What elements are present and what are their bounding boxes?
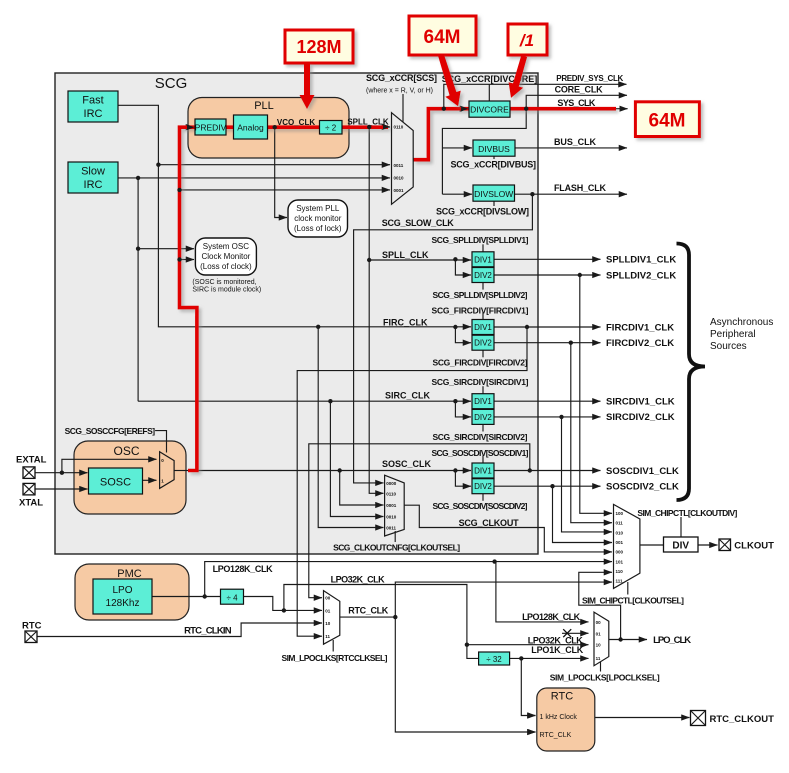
svg-text:0010: 0010 — [394, 175, 405, 180]
svg-text:DIVCORE: DIVCORE — [470, 105, 509, 115]
wire SIRCDIV1_CLK out — [494, 400, 601, 402]
junction FIRC div2 branch — [453, 325, 457, 329]
pad EXTAL — [16, 455, 47, 479]
wire SOSCDIV1 rail to RTC mux 00 — [309, 444, 530, 598]
svg-text:PMC: PMC — [117, 568, 142, 580]
wire Analog to div2 (VCO_CLK) — [268, 126, 319, 128]
svg-text:11: 11 — [325, 634, 330, 639]
svg-text:/1: /1 — [519, 31, 534, 50]
block SOSC DIV1 — [472, 463, 494, 478]
wire BUS_CLK — [515, 147, 627, 149]
svg-text:0001: 0001 — [394, 188, 405, 193]
wire EXTAL to SOSC — [35, 472, 88, 474]
svg-text:SCG_CLKOUTCNFG[CLKOUTSEL]: SCG_CLKOUTCNFG[CLKOUTSEL] — [333, 543, 460, 553]
block PLL (container) — [188, 98, 349, 159]
wire FIRCDIV2_CLK out — [494, 342, 601, 344]
junction SOSC monitor — [177, 257, 181, 261]
pad RTC — [22, 621, 42, 643]
mux SCS (system clock select) — [392, 113, 414, 205]
svg-text:(where x = R, V, or H): (where x = R, V, or H) — [366, 88, 433, 95]
wire LPO128K_CLK to CLKOUTSEL 101 — [205, 562, 612, 597]
svg-text:SCG_CLKOUT: SCG_CLKOUT — [459, 518, 519, 528]
block DIVBUS — [473, 140, 515, 156]
svg-text:IRC: IRC — [84, 108, 103, 120]
svg-text:÷ 2: ÷ 2 — [325, 124, 337, 133]
block div4 — [221, 589, 244, 604]
svg-text:DIV1: DIV1 — [474, 255, 492, 264]
wire SIRCDIV2 select stub — [482, 425, 484, 432]
wire SOSCDIV2 select stub — [482, 494, 484, 501]
mux SIM_CHIPCTL[CLKOUTSEL] — [614, 504, 640, 588]
wire EREFS select — [155, 431, 166, 453]
svg-text:DIV2: DIV2 — [474, 482, 492, 491]
wire SPLLDIV1 select stub — [482, 244, 484, 252]
svg-text:Peripheral: Peripheral — [710, 329, 756, 340]
svg-text:11: 11 — [596, 656, 601, 661]
junction DIVCORE output — [524, 107, 528, 111]
wire SCG_SLOW_CLK to SCG_CLKOUT mux 0000 — [354, 194, 533, 483]
svg-text:RTC_CLKIN: RTC_CLKIN — [184, 626, 232, 637]
wire RTC_CLKIN to RTC mux 10 — [37, 623, 322, 637]
svg-text:SCG_SOSCDIV[SOSCDIV2]: SCG_SOSCDIV[SOSCDIV2] — [433, 501, 528, 511]
wire SIRC to OSC clock monitor — [138, 248, 194, 250]
wire CORE_CLK — [526, 95, 627, 108]
junction SIRC rail — [136, 176, 140, 180]
block SOSC DIV2 — [472, 479, 494, 494]
wire Fast IRC to FIRC rail — [118, 105, 158, 164]
wire SIRC_CLK to SIRCDIV group — [138, 400, 471, 402]
block DIVCORE — [469, 101, 510, 117]
wire LPO32K_CLK to LPO mux 10 — [284, 585, 589, 645]
svg-text:DIV: DIV — [672, 541, 689, 552]
monitor System OSC Clock Monitor — [195, 238, 256, 275]
wire LPO1K to RTC 1kHz input — [521, 658, 535, 715]
wire EXTAL bypass to OSC mux 0 — [62, 459, 157, 472]
svg-text:OSC: OSC — [113, 444, 139, 458]
svg-text:FIRCDIV1_CLK: FIRCDIV1_CLK — [606, 322, 674, 333]
block DIVSLOW — [473, 185, 515, 201]
wire SOSC to DIV2 — [455, 471, 471, 487]
wire RTC block to RTC_CLKOUT pad — [595, 717, 690, 719]
mux SCG_CLKOUT (CLKOUTCNFG) — [385, 475, 405, 536]
svg-text:XTAL: XTAL — [19, 498, 43, 509]
svg-text:128M: 128M — [296, 37, 341, 57]
annotation arrow 128M — [300, 63, 315, 109]
block PREDIV — [195, 119, 227, 135]
svg-text:10: 10 — [596, 643, 602, 648]
wire RTC mux select stub — [332, 640, 334, 652]
wire LPO128K to LPO mux 00 — [496, 562, 589, 622]
wire LPO_CLK to CLKOUTSEL 110 — [579, 572, 621, 639]
svg-text:(Loss of lock): (Loss of lock) — [294, 224, 342, 233]
wire SPLL rail to SCG_CLKOUT mux 0110 — [369, 127, 383, 493]
wire VCO to System PLL clock monitor — [275, 127, 287, 217]
block FIRC DIV1 — [472, 320, 494, 335]
svg-text:CLKOUT: CLKOUT — [734, 541, 774, 552]
block DIV — [664, 537, 699, 552]
svg-text:SIRCDIV2_CLK: SIRCDIV2_CLK — [606, 412, 675, 423]
svg-text:SOSCDIV1_CLK: SOSCDIV1_CLK — [606, 466, 679, 477]
wire FIRCDIV2 rail to CLKOUTSEL 011 — [571, 343, 612, 523]
svg-text:0011: 0011 — [394, 163, 404, 168]
block RTC — [537, 688, 595, 751]
svg-text:SYS_CLK: SYS_CLK — [557, 98, 596, 108]
block SIRC DIV1 — [472, 394, 494, 409]
svg-text:PREDIV: PREDIV — [195, 123, 227, 133]
svg-text:SIM_CHIPCTL[CLKOUTDIV]: SIM_CHIPCTL[CLKOUTDIV] — [637, 508, 737, 518]
wire FIRCDIV2 select stub — [482, 350, 484, 357]
svg-text:VCO_CLK: VCO_CLK — [277, 118, 315, 127]
wire SOSCDIV1_CLK out — [494, 470, 601, 472]
svg-text:DIV1: DIV1 — [474, 323, 492, 332]
svg-text:SCG_SOSCDIV[SOSCDIV1]: SCG_SOSCDIV[SOSCDIV1] — [432, 448, 529, 458]
wire PREDIV_SYS_CLK — [444, 84, 627, 108]
junction SOSCDIV1 out — [528, 468, 532, 472]
wire FIRCDIV1 rail to RTC mux 11 — [297, 327, 527, 636]
junction FIRC to mux — [156, 163, 160, 167]
svg-text:101: 101 — [616, 559, 624, 564]
svg-text:÷ 32: ÷ 32 — [486, 655, 502, 664]
svg-text:IRC: IRC — [84, 179, 103, 191]
svg-text:128Khz: 128Khz — [106, 598, 140, 609]
junction FIRC clkout branch — [316, 325, 320, 329]
svg-text:PLL: PLL — [254, 100, 274, 112]
svg-text:SIM_LPOCLKS[RTCCLKSEL]: SIM_LPOCLKS[RTCCLKSEL] — [282, 653, 388, 663]
wire SOSCDIV2 rail to CLKOUTSEL 001 — [553, 486, 613, 542]
svg-text:RTC_CLK: RTC_CLK — [348, 606, 389, 616]
wire DIVSLOW select stub — [493, 201, 495, 206]
svg-text:0000: 0000 — [386, 481, 397, 486]
junction EXTAL — [60, 471, 64, 475]
svg-text:BUS_CLK: BUS_CLK — [554, 137, 597, 147]
wire SIRCDIV2 rail to CLKOUTSEL 010 — [562, 417, 613, 532]
wire SIM_CHIPCTL[CLKOUTDIV] select — [680, 517, 682, 537]
svg-text:110: 110 — [616, 569, 624, 574]
svg-text:Fast: Fast — [82, 95, 103, 107]
block PMC (container) — [75, 564, 189, 620]
SCG container box — [55, 73, 538, 554]
junction SOSCDIV2 out — [550, 484, 554, 488]
svg-text:SPLLDIV1_CLK: SPLLDIV1_CLK — [606, 255, 676, 266]
wire X stub to LPO mux 01 — [562, 632, 589, 634]
annotation arrow 64M — [438, 54, 461, 106]
svg-text:00: 00 — [325, 596, 331, 601]
wire SPLL to DIV2 — [455, 259, 471, 275]
svg-text:FIRCDIV2_CLK: FIRCDIV2_CLK — [606, 338, 674, 349]
svg-text:DIV1: DIV1 — [474, 467, 492, 476]
svg-text:LPO128K_CLK: LPO128K_CLK — [213, 564, 274, 574]
svg-text:01: 01 — [596, 631, 602, 636]
svg-text:SCG_xCCR[DIVSLOW]: SCG_xCCR[DIVSLOW] — [436, 207, 529, 217]
wire SOSC to PLL PREDIV (under red) — [180, 127, 197, 470]
svg-text:(Loss of clock): (Loss of clock) — [200, 262, 252, 271]
wire SOSCDIV1 select stub — [482, 456, 484, 464]
svg-text:SCG_xCCR[SCS]: SCG_xCCR[SCS] — [366, 73, 437, 83]
junction SPLL div2 branch — [453, 257, 457, 261]
wire SIRC to SCG_CLKOUT mux 0010 — [330, 401, 383, 516]
monitor System PLL clock monitor — [288, 200, 348, 237]
junction SIRC clkout branch — [328, 399, 332, 403]
wire FIRC to SCG_CLKOUT mux 0011 — [318, 327, 383, 528]
wire DIVCORE out (under red) — [510, 108, 616, 110]
wire SPLLDIV2 rail to CLKOUTSEL 100 — [580, 275, 612, 513]
block div2 — [320, 121, 343, 135]
brace asynchronous peripheral sources — [677, 244, 706, 501]
wire SIRCDIV2_CLK out — [494, 416, 601, 418]
svg-text:0110: 0110 — [394, 124, 404, 129]
svg-text:SPLLDIV2_CLK: SPLLDIV2_CLK — [606, 270, 676, 281]
wire SIRC to DIV2 — [455, 401, 471, 417]
wire DIV to CLKOUT pad — [698, 544, 718, 546]
svg-text:SIRC_CLK: SIRC_CLK — [385, 391, 431, 401]
wire XTAL to SOSC — [35, 488, 88, 490]
block SOSC — [89, 468, 143, 494]
wire SPLL_CLK to SPLLDIV group — [369, 259, 471, 261]
svg-text:DIV2: DIV2 — [474, 271, 492, 280]
wire SOSC to OSC clock monitor — [180, 259, 195, 261]
svg-text:64M: 64M — [649, 111, 686, 132]
junction SOSC to mux — [177, 188, 181, 192]
svg-text:SCG: SCG — [155, 75, 188, 92]
wire CLKOUTSEL mux select stub — [627, 582, 629, 595]
wire RTC_CLK out — [340, 616, 395, 618]
svg-text:clock monitor: clock monitor — [294, 214, 341, 223]
annotation /1 — [508, 24, 547, 55]
wire LPO32K to div32 — [467, 645, 478, 659]
svg-text:64M: 64M — [424, 27, 461, 48]
wire FIRC to SCS mux 0011 — [158, 164, 390, 166]
junction SIRCDIV2 out — [559, 415, 563, 419]
svg-text:SPLL_CLK: SPLL_CLK — [382, 250, 429, 260]
junction SIRC monitor — [136, 247, 140, 251]
svg-text:FIRC_CLK: FIRC_CLK — [383, 318, 428, 328]
svg-text:111: 111 — [616, 579, 624, 584]
junction SPLL div group — [367, 258, 371, 262]
junction SPLL rail top — [367, 125, 371, 129]
pad CLKOUT — [719, 539, 774, 552]
svg-text:001: 001 — [616, 540, 624, 545]
block SPLL DIV1 — [472, 252, 494, 267]
svg-text:SPLL_CLK: SPLL_CLK — [347, 118, 389, 127]
junction LPO out — [203, 594, 207, 598]
junction DIVCORE input — [442, 107, 446, 111]
arrows into RTC block — [531, 715, 536, 717]
svg-text:Sources: Sources — [710, 341, 747, 352]
wire FIRCDIV1 select stub — [482, 312, 484, 320]
wire FLASH_CLK — [515, 193, 627, 195]
junction FIRCDIV2 out — [569, 341, 573, 345]
wire SPLLDIV2_CLK out — [494, 274, 601, 276]
wire FIRC to DIV2 — [455, 327, 471, 343]
mux SIM_LPOCLKS[RTCCLKSEL] — [324, 591, 340, 645]
svg-text:FLASH_CLK: FLASH_CLK — [554, 183, 607, 193]
wire SIRCDIV1 select stub — [482, 386, 484, 394]
svg-text:SIRCDIV1_CLK: SIRCDIV1_CLK — [606, 397, 675, 408]
svg-text:0011: 0011 — [386, 526, 396, 531]
wire SYS_CLK arrow — [616, 108, 628, 110]
svg-text:SCG_SIRCDIV[SIRCDIV2]: SCG_SIRCDIV[SIRCDIV2] — [433, 432, 528, 442]
svg-text:SOSC_CLK: SOSC_CLK — [382, 459, 432, 469]
X mark on reserved LPO mux input — [563, 629, 571, 637]
svg-text:SIM_CHIPCTL[CLKOUTSEL]: SIM_CHIPCTL[CLKOUTSEL] — [582, 596, 684, 606]
svg-text:Clock Monitor: Clock Monitor — [201, 252, 250, 261]
wire LPO1K_CLK to LPO mux 11 — [509, 657, 588, 659]
wire SIRC rail down — [137, 178, 139, 401]
wire SCG_CLKOUT mux select stub — [394, 531, 396, 542]
junction RTC_CLK — [393, 615, 397, 619]
svg-text:SOSC: SOSC — [100, 477, 131, 489]
svg-text:0110: 0110 — [386, 491, 396, 496]
annotation 64M (right) — [635, 102, 699, 137]
svg-text:RTC: RTC — [551, 691, 573, 703]
junction SOSC clkout branch — [338, 468, 342, 472]
svg-text:DIV1: DIV1 — [474, 397, 492, 406]
block Analog — [234, 115, 268, 139]
svg-text:00: 00 — [596, 620, 602, 625]
svg-text:LPO: LPO — [112, 585, 132, 596]
svg-text:SCG_SIRCDIV[SIRCDIV1]: SCG_SIRCDIV[SIRCDIV1] — [432, 377, 529, 387]
svg-text:Slow: Slow — [81, 166, 105, 178]
wire DIVCORE out feed to DIVBUS/DIVSLOW — [442, 109, 526, 195]
block SIRC DIV2 — [472, 409, 494, 424]
junction LPO32K branch — [282, 608, 286, 612]
block FIRC DIV2 — [472, 335, 494, 350]
svg-text:SCG_FIRCDIV[FIRCDIV2]: SCG_FIRCDIV[FIRCDIV2] — [433, 358, 528, 368]
svg-text:RTC_CLK: RTC_CLK — [540, 732, 572, 739]
wire DIVBUS select stub — [493, 157, 495, 160]
svg-text:System PLL: System PLL — [296, 204, 340, 213]
wire div4 out to RTC mux 01 — [244, 597, 322, 611]
svg-text:010: 010 — [616, 530, 624, 535]
red highlight path: SOSC->PLL->SPLL->DIVCORE->SYS_CLK — [180, 109, 617, 471]
svg-text:SCG_xCCR[DIVCORE]: SCG_xCCR[DIVCORE] — [442, 74, 538, 84]
block div32 — [479, 652, 510, 665]
wire SCG_xCCR[DIVCORE] select — [488, 85, 490, 101]
wire SPLLDIV1_CLK out — [494, 258, 601, 260]
svg-text:CORE_CLK: CORE_CLK — [555, 85, 604, 95]
wire FIRCDIV1_CLK out — [494, 326, 601, 328]
wire RTC_CLK to RTC block — [395, 617, 535, 732]
junction LPO1K branch — [519, 656, 523, 660]
svg-text:SCG_SOSCCFG[EREFS]: SCG_SOSCCFG[EREFS] — [65, 426, 156, 436]
junction FLASH/SLOW — [530, 192, 534, 196]
mux SIM_LPOCLKS[LPOCLKSEL] — [594, 612, 609, 666]
svg-text:RTC: RTC — [22, 621, 42, 632]
svg-text:SCG_xCCR[DIVBUS]: SCG_xCCR[DIVBUS] — [451, 160, 537, 170]
annotation 64M (top) — [409, 16, 476, 55]
svg-text:SOSCDIV2_CLK: SOSCDIV2_CLK — [606, 482, 679, 493]
wire CLKOUTSEL mux out to DIV — [640, 544, 663, 546]
svg-text:1 kHz Clock: 1 kHz Clock — [540, 714, 578, 721]
wire SPLL_CLK to SCS mux 0110 — [342, 126, 390, 128]
svg-text:DIVBUS: DIVBUS — [478, 144, 510, 154]
junction FIRCDIV1 out — [525, 325, 529, 329]
block Slow IRC — [68, 162, 118, 193]
wire SOSC to SCS mux 0001 — [180, 189, 391, 191]
svg-text:PREDIV_SYS_CLK: PREDIV_SYS_CLK — [556, 74, 623, 83]
wire Slow IRC to SCS mux 0010 — [118, 177, 390, 179]
wire SOSC_CLK to SOSCDIV group — [197, 470, 471, 472]
pad RTC_CLKOUT — [691, 711, 775, 726]
svg-text:0010: 0010 — [386, 515, 397, 520]
svg-text:LPO1K_CLK: LPO1K_CLK — [531, 645, 584, 655]
wire into DIVSLOW — [442, 193, 472, 195]
wire RTC_CLK to CLKOUTSEL 111 — [395, 582, 612, 617]
svg-text:÷ 4: ÷ 4 — [226, 594, 238, 603]
svg-text:System OSC: System OSC — [203, 242, 249, 251]
svg-text:LPO_CLK: LPO_CLK — [653, 635, 691, 646]
wire LPO_CLK out — [609, 639, 647, 641]
svg-text:000: 000 — [616, 550, 624, 555]
svg-text:SIM_LPOCLKS[LPOCLKSEL]: SIM_LPOCLKS[LPOCLKSEL] — [550, 673, 660, 683]
svg-text:SCG_FIRCDIV[FIRCDIV1]: SCG_FIRCDIV[FIRCDIV1] — [432, 306, 529, 316]
svg-text:100: 100 — [616, 511, 624, 516]
svg-text:DIV2: DIV2 — [474, 339, 492, 348]
pad XTAL — [19, 483, 43, 508]
svg-text:(SOSC is monitored,: (SOSC is monitored, — [192, 279, 256, 286]
wire SOSCDIV2_CLK out — [494, 485, 601, 487]
junction SOSC div2 branch — [453, 468, 457, 472]
wire into DIVBUS — [442, 147, 472, 149]
junction SIRC div2 branch — [453, 399, 457, 403]
wire SOSC to SCG_CLKOUT mux 0001 — [340, 471, 384, 506]
wire SCS mux out to DIVCORE — [413, 109, 468, 160]
svg-text:RTC_CLKOUT: RTC_CLKOUT — [710, 714, 775, 725]
wire SCG_xCCR[SCS] select — [402, 94, 404, 122]
wire SPLLDIV2 select stub — [482, 283, 484, 290]
annotation 128M — [285, 30, 353, 63]
svg-text:011: 011 — [616, 521, 624, 526]
block LPO 128Khz — [93, 579, 152, 614]
svg-text:10: 10 — [325, 621, 331, 626]
junction LPO128K branch — [492, 559, 496, 563]
wire LPO mux select stub — [600, 662, 602, 672]
svg-text:DIVSLOW: DIVSLOW — [474, 189, 513, 199]
svg-text:DIV2: DIV2 — [474, 413, 492, 422]
svg-text:LPO32K_CLK: LPO32K_CLK — [331, 575, 386, 585]
svg-text:0001: 0001 — [386, 503, 397, 508]
junction VCO_CLK — [273, 125, 277, 129]
block Fast IRC — [68, 91, 118, 122]
wire LPO out to div4 — [152, 596, 220, 598]
junction LPO_CLK — [618, 637, 622, 641]
svg-text:SCG_SLOW_CLK: SCG_SLOW_CLK — [382, 218, 455, 228]
block OSC (container) — [74, 441, 186, 514]
svg-text:SIRC is module clock): SIRC is module clock) — [192, 287, 261, 294]
junction LPO32K to div32 — [465, 643, 469, 647]
svg-text:EXTAL: EXTAL — [16, 455, 47, 466]
svg-text:01: 01 — [325, 609, 331, 614]
wire OSC mux out — [174, 470, 188, 472]
wire SOSC to OSC mux 1 — [142, 479, 156, 481]
block SPLL DIV2 — [472, 268, 494, 283]
annotation arrow /1 — [509, 55, 527, 97]
junction SPLLDIV2 out — [578, 273, 582, 277]
svg-text:Analog: Analog — [237, 123, 264, 133]
svg-text:Asynchronous: Asynchronous — [710, 317, 773, 328]
wire FIRC_CLK rail to FIRCDIV group — [158, 165, 471, 327]
arrowheads redrawn over red — [187, 124, 194, 130]
svg-text:SCG_SPLLDIV[SPLLDIV1]: SCG_SPLLDIV[SPLLDIV1] — [432, 235, 529, 245]
svg-text:SCG_SPLLDIV[SPLLDIV2]: SCG_SPLLDIV[SPLLDIV2] — [433, 290, 528, 300]
mux OSC bypass — [160, 452, 175, 489]
wire SCG_CLKOUT to CLKOUTSEL 000 — [404, 505, 612, 552]
wire PREDIV to Analog — [226, 126, 233, 128]
svg-text:LPO128K_CLK: LPO128K_CLK — [522, 612, 581, 622]
